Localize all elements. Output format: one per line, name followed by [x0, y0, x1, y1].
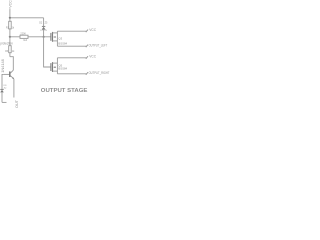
svg-text:VCC: VCC [89, 55, 96, 59]
wire collector jog [10, 57, 13, 70]
wire diode branch down [43, 18, 45, 27]
pin marker OUTPUT_RIGHT [86, 72, 88, 75]
svg-text:1k4: 1k4 [23, 39, 28, 42]
wire VCC pin upper [57, 30, 86, 32]
diode D2 [40, 26, 47, 36]
wire VCC pin lower [57, 57, 86, 59]
svg-text:BSS84: BSS84 [58, 41, 67, 45]
svg-text:OUT: OUT [15, 99, 19, 108]
wire stub bottom-left [2, 101, 7, 103]
svg-text:OUTPUT_LEFT: OUTPUT_LEFT [89, 44, 108, 48]
wire top rail [10, 17, 44, 19]
svg-text:OUTPUT_RIGHT: OUTPUT_RIGHT [89, 71, 110, 75]
svg-text:4w: 4w [4, 87, 7, 89]
diode D9 [0, 89, 4, 102]
svg-text:Q3: Q3 [58, 37, 62, 41]
svg-text:OUTPUT STAGE: OUTPUT STAGE [41, 88, 88, 94]
power symbol VCC (top-left) [8, 0, 12, 10]
resistor R1 (top vertical) [6, 18, 15, 37]
svg-text:BSS84: BSS84 [58, 66, 67, 70]
wire OUTPUT_RIGHT pin [57, 73, 86, 75]
node junction top-left [9, 17, 11, 19]
pin marker VCC upper [86, 30, 88, 33]
resistor R2 (horizontal) [20, 33, 28, 42]
node junction left rail [9, 36, 11, 38]
svg-text:VCC: VCC [89, 28, 96, 32]
wire emitter to OUT [13, 79, 15, 98]
transistor Q3 (P-MOSFET upper) [51, 31, 68, 46]
wire protection rail [10, 36, 51, 38]
wire VCC stem [9, 10, 11, 18]
svg-text:VCC: VCC [8, 0, 12, 8]
wire gate branch down [44, 37, 51, 67]
wire base branch down [2, 74, 4, 89]
wire OUTPUT_LEFT pin [57, 45, 86, 47]
resistor R3 (protection vertical) [5, 37, 15, 57]
node junction mid [43, 36, 45, 38]
svg-text:protection: protection [0, 40, 13, 45]
transistor Q2 (NPN clamp) [4, 70, 14, 79]
pin marker VCC lower [86, 56, 88, 59]
svg-text:1N4148: 1N4148 [1, 59, 5, 73]
transistor Q5 (P-MOSFET lower) [51, 58, 68, 74]
pin marker OUTPUT_LEFT [86, 45, 88, 48]
